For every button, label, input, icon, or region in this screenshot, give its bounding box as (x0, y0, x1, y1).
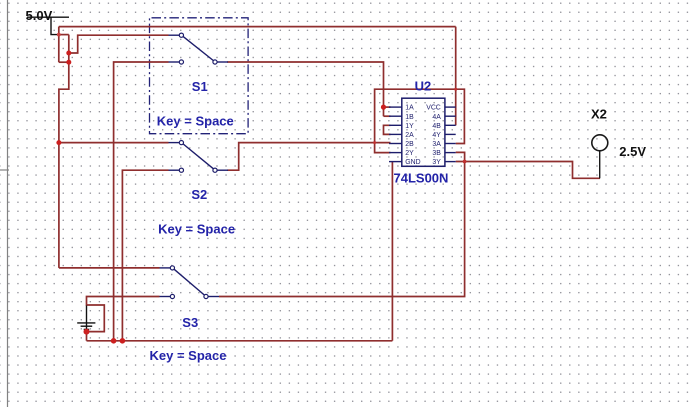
svg-text:2.5V: 2.5V (619, 144, 646, 159)
wire link at y=62 (59, 61, 69, 63)
sheet border line (7, 0, 9, 407)
svg-text:3Y: 3Y (432, 159, 441, 166)
svg-text:S2: S2 (191, 187, 207, 202)
svg-text:3A: 3A (432, 141, 441, 148)
wire VCC vertical left (58, 27, 60, 63)
svg-text:2Y: 2Y (405, 150, 414, 157)
svg-text:1Y: 1Y (405, 123, 414, 130)
svg-text:3B: 3B (432, 150, 441, 157)
wire 2Y up and over to 3A (375, 89, 465, 152)
wire from source junction right (59, 34, 69, 36)
svg-text:Key = Space: Key = Space (157, 113, 234, 128)
ground symbol (77, 306, 95, 331)
wire stub 1B (384, 115, 391, 117)
wire ground bus (87, 340, 393, 342)
svg-text:2B: 2B (405, 141, 414, 148)
wire VCC jog down (59, 62, 69, 268)
svg-text:5.0V: 5.0V (26, 8, 53, 23)
svg-text:GND: GND (405, 159, 420, 166)
svg-text:Key = Space: Key = Space (158, 221, 235, 236)
wire U2 GND drop (391, 162, 393, 341)
U2 right pin stubs (445, 107, 456, 162)
selection box around S1 (dashed) (150, 18, 249, 134)
wire VCC top bus (59, 26, 456, 28)
svg-text:4Y: 4Y (432, 132, 441, 139)
crossover mark at 2B wire (373, 141, 376, 144)
wire S1 bottom throw to ground bus (114, 62, 169, 341)
wire 3Y to lamp X2 (456, 162, 600, 179)
junction node x68 upper (66, 51, 71, 56)
U2 pin names left (405, 105, 420, 167)
sheet border tick (0, 169, 9, 171)
U2 pin names right (426, 105, 441, 167)
svg-text:4B: 4B (432, 123, 441, 130)
crossover mark at VCC drop (454, 88, 457, 91)
svg-text:74LS00N: 74LS00N (394, 170, 449, 185)
svg-text:S1: S1 (192, 79, 208, 94)
wire S1 common to U2 1A/1B (227, 62, 383, 116)
U2 left pin stubs (389, 107, 402, 162)
wire 1Y to 2A tie (384, 125, 391, 134)
wire VCC to S3 top throw (59, 267, 160, 269)
svg-text:2A: 2A (405, 132, 414, 139)
wire VCC drop to U2 VCC/4A/4B (455, 27, 457, 126)
op IC U2 74LS00N body (402, 98, 445, 166)
junction S2 drop on ground bus (120, 338, 126, 344)
junction node x68 lower (66, 60, 71, 65)
wire short vertical x=68.8 (68, 35, 70, 63)
switch S3 (160, 266, 220, 299)
wire S3 bottom throw detour around ground (87, 297, 160, 341)
svg-text:U2: U2 (415, 79, 432, 94)
wire S2 common to U2 2B (227, 143, 390, 171)
svg-text:VCC: VCC (426, 105, 441, 112)
power source V1 5.0V symbol (27, 17, 69, 34)
wire to S1 top throw (69, 35, 169, 53)
probe lamp X2 (599, 151, 601, 179)
junction at source (57, 33, 61, 37)
wire S2 bottom throw to ground bus (122, 170, 168, 341)
wire S3 common to U2 3B (219, 152, 465, 296)
svg-text:Key = Space: Key = Space (150, 348, 227, 363)
switch S2 (169, 141, 229, 173)
svg-text:1B: 1B (405, 114, 414, 121)
junction to S2 branch (56, 140, 61, 145)
wire VCC to S2 top throw (59, 142, 169, 144)
junction S1 drop on ground bus (111, 338, 117, 344)
junction at U2 1A (381, 105, 386, 110)
wire stub 1A (384, 106, 391, 108)
switch S1 (169, 33, 229, 64)
junction at ground symbol (84, 329, 90, 335)
svg-text:1A: 1A (405, 105, 414, 112)
svg-text:S3: S3 (182, 315, 198, 330)
svg-text:X2: X2 (591, 107, 607, 122)
crossover mark at 3Y wire (463, 160, 467, 164)
svg-text:4A: 4A (432, 114, 441, 121)
